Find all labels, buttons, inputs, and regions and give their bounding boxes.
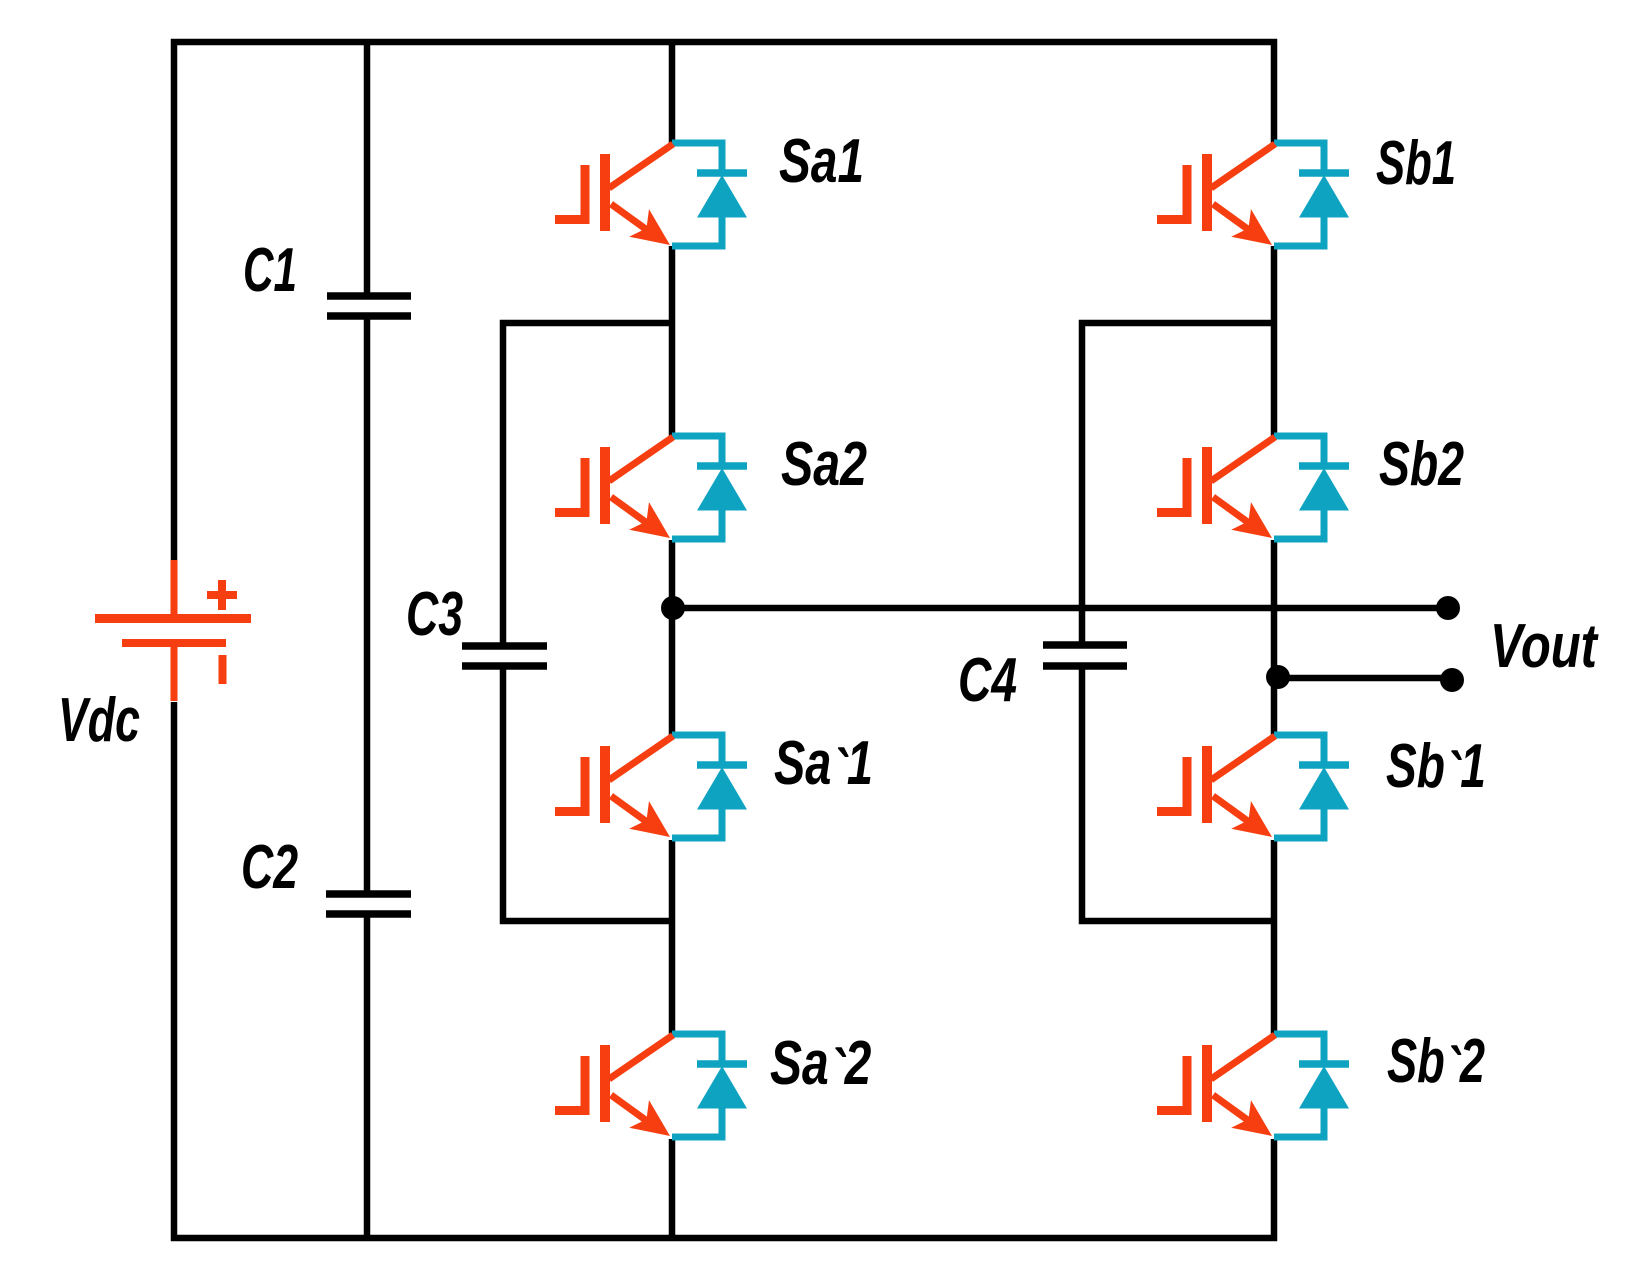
svg-text:Vout: Vout xyxy=(1490,610,1599,680)
svg-text:Sa1: Sa1 xyxy=(779,126,864,195)
svg-text:C2: C2 xyxy=(241,833,298,902)
svg-text:Sb2: Sb2 xyxy=(1379,428,1464,498)
svg-text:C1: C1 xyxy=(243,236,297,305)
svg-text:C3: C3 xyxy=(406,580,463,649)
svg-text:Sa`2: Sa`2 xyxy=(770,1028,872,1106)
svg-text:Sb`1: Sb`1 xyxy=(1386,731,1486,809)
svg-text:Vdc: Vdc xyxy=(58,686,140,755)
svg-text:Sa`1: Sa`1 xyxy=(774,728,873,807)
svg-text:Sa2: Sa2 xyxy=(781,429,867,498)
svg-text:C4: C4 xyxy=(958,645,1017,714)
svg-text:Sb`2: Sb`2 xyxy=(1387,1027,1485,1105)
svg-text:Sb1: Sb1 xyxy=(1376,128,1456,197)
